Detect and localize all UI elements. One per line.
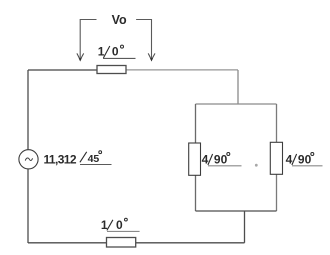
wire: left vertical lower (source to bottom wire) [27, 169, 29, 243]
dot mark between branches [255, 164, 258, 167]
wire: parallel network top edge [196, 103, 277, 105]
wire: parallel network left branch [195, 104, 197, 211]
wire: bottom right vertical (parallel network to bottom wire) [244, 211, 246, 243]
wire: top horizontal right segment (R1 to node B) [112, 69, 238, 71]
svg-text:4: 4 [202, 152, 209, 166]
label: Z2 value 4/90deg [286, 152, 323, 166]
svg-text:11,312: 11,312 [44, 152, 77, 166]
label: R2 value 1/0deg [101, 218, 140, 232]
svg-text:90: 90 [214, 152, 228, 166]
label: source value 11,312 /45deg [44, 151, 112, 167]
svg-text:45: 45 [88, 153, 100, 165]
svg-text:Vo: Vo [112, 13, 127, 27]
label: Z1 value 4/90deg [202, 152, 242, 166]
Vo annotation: right arrow [136, 20, 155, 62]
wire: bottom horizontal [28, 242, 245, 244]
wire: parallel network right branch [276, 104, 278, 211]
wire: right vertical from top wire down to parallel network [237, 70, 239, 104]
resistor R2 1&#8736;0&#176; (bottom) [107, 238, 136, 248]
wire: parallel network bottom edge [196, 210, 277, 212]
wire: left vertical upper (top wire to source) [27, 70, 29, 150]
wire: top horizontal left segment (node A to R1) [28, 69, 112, 71]
svg-text:90: 90 [298, 152, 312, 166]
svg-text:0: 0 [112, 45, 119, 59]
impedance Z2 4&#8736;90&#176; (right branch) [270, 142, 282, 174]
label: R1 value 1/0deg [98, 45, 136, 59]
resistor R1 1&#8736;0&#176; (top) [97, 66, 126, 74]
ac source V1 [19, 150, 38, 169]
Vo annotation: left arrow [77, 20, 97, 62]
svg-text:0: 0 [116, 218, 123, 232]
svg-text:4: 4 [286, 152, 293, 166]
impedance Z1 4&#8736;90&#176; (left branch) [189, 143, 201, 175]
